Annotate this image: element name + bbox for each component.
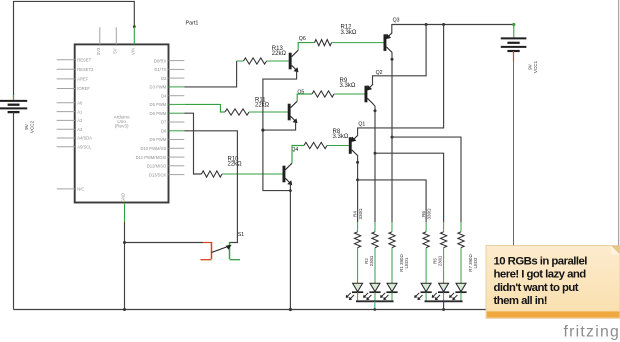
Arduino right pins D0..D13 — [136, 58, 185, 177]
pin 5V — [112, 27, 117, 53]
transistor Q4 — [283, 147, 299, 185]
pin VIN — [130, 27, 135, 55]
LED LED1 channel 2 — [363, 248, 381, 302]
wire D5 to R11 — [184, 104, 225, 112]
svg-text:D0/RX: D0/RX — [154, 58, 167, 63]
node rail joint Q2 feed — [425, 23, 428, 26]
svg-text:D12/MISO: D12/MISO — [147, 164, 167, 169]
svg-text:3.3kΩ: 3.3kΩ — [341, 30, 357, 36]
resistor R13 22k — [244, 46, 287, 64]
svg-text:D6 PWM: D6 PWM — [150, 111, 167, 116]
svg-text:IOREF: IOREF — [77, 86, 90, 91]
wire Q5 emitter join — [263, 121, 296, 130]
wire split to group2 column2 — [375, 153, 444, 232]
wire Q3 column down to resistor — [391, 137, 393, 232]
resistor R2 230ohm — [372, 232, 378, 248]
LED LED2 channel 3 — [449, 248, 467, 302]
svg-text:Q3: Q3 — [393, 17, 400, 23]
wire Q6 collector to R12 — [298, 43, 314, 51]
wire Q2 emitter to +9V — [373, 25, 427, 85]
wire Q1 emitter to +9V — [358, 25, 444, 137]
wire LED2 bus to ground rail — [442, 301, 445, 311]
svg-text:230Ω: 230Ω — [438, 255, 443, 266]
wire LED1 bus to ground rail — [373, 301, 376, 311]
wire Q3 emitter to +9V rail — [391, 24, 393, 33]
svg-text:them all in!: them all in! — [494, 295, 548, 307]
svg-text:A3: A3 — [77, 127, 83, 132]
node Q2 split junction — [374, 152, 377, 155]
svg-text:D5 PWM: D5 PWM — [150, 102, 167, 107]
LED LED1 channel 1 — [346, 248, 364, 302]
svg-text:9V: 9V — [24, 123, 29, 130]
wire split to group2 column3 — [392, 137, 461, 232]
transistor Q1 — [349, 121, 366, 155]
note sticky annotation — [486, 246, 620, 319]
svg-text:330Ω: 330Ω — [427, 208, 432, 220]
wire LED2 cathode bus — [425, 300, 463, 302]
wire battery VCC1 negative down — [513, 62, 515, 310]
svg-text:(Rev3): (Rev3) — [115, 124, 129, 129]
pin 3V3 — [96, 27, 101, 55]
transistor Q6 — [289, 36, 306, 72]
fritzing logo — [564, 324, 620, 341]
wire R11 to Q5 base — [249, 111, 288, 113]
wire Q1 collector down — [356, 155, 359, 180]
wire LED1 cathode bus — [356, 300, 394, 302]
svg-text:5V: 5V — [112, 48, 117, 53]
svg-text:didn't want to put: didn't want to put — [494, 282, 579, 294]
node rail to battery joint — [512, 23, 515, 26]
svg-text:VCC2: VCC2 — [29, 120, 34, 133]
wire GND to S1 — [125, 242, 204, 244]
svg-text:R4: R4 — [352, 211, 357, 217]
svg-text:D1/TX: D1/TX — [154, 67, 166, 72]
svg-text:Q1: Q1 — [358, 121, 365, 127]
svg-text:10 RGBs in parallel: 10 RGBs in parallel — [494, 255, 588, 267]
svg-text:A0: A0 — [77, 101, 83, 106]
wire Q2 column down — [374, 153, 376, 232]
resistor R5 230ohm — [441, 232, 447, 248]
node GND wire junction — [123, 241, 126, 244]
wire +9V top rail — [392, 24, 514, 26]
wire Q3 collector down — [391, 52, 394, 137]
svg-text:22kΩ: 22kΩ — [228, 162, 243, 168]
battery VCC1 9V — [501, 25, 538, 74]
svg-text:A4/SDA: A4/SDA — [77, 136, 92, 141]
svg-text:R6: R6 — [421, 211, 426, 217]
svg-text:RESET: RESET — [77, 57, 91, 62]
wire D3 to R13 — [184, 61, 243, 87]
wire Q6 emitter bus — [263, 71, 297, 310]
resistor R4 330ohm — [355, 232, 361, 248]
label R2 — [364, 255, 374, 266]
wire Q1 column down — [357, 180, 359, 232]
transistor Q5 — [288, 89, 305, 123]
svg-text:9V: 9V — [527, 63, 532, 70]
svg-text:Part1: Part1 — [186, 21, 199, 27]
wire R13 to Q6 base — [267, 60, 289, 62]
wire R10 to Q4 base — [222, 173, 283, 175]
frame right edge line — [618, 0, 620, 246]
resistor R7 390ohm — [458, 232, 464, 248]
node Q3 split junction — [391, 136, 394, 139]
wire Q5 collector to R9 — [297, 94, 312, 101]
wire split to group2 column1 — [358, 180, 427, 232]
resistor R11 22k — [225, 97, 270, 115]
svg-text:D13/SCK: D13/SCK — [149, 172, 167, 177]
LED LED2 channel 2 — [432, 248, 450, 302]
resistor R1 390ohm — [389, 232, 395, 248]
wire R8 to Q1 base — [327, 145, 349, 147]
svg-text:RESET2: RESET2 — [77, 67, 94, 72]
pushbutton S1 — [201, 232, 245, 260]
wire D8 to S1 — [184, 131, 237, 243]
wire D6 to R10 — [184, 113, 201, 174]
wire R12 to Q3 base — [332, 42, 384, 44]
label R7 and LED2 — [468, 254, 478, 272]
node rail joint Q1 feed — [442, 23, 445, 26]
svg-text:330Ω: 330Ω — [358, 208, 363, 220]
svg-text:LED1: LED1 — [404, 257, 409, 269]
node VIN wire junction — [133, 25, 136, 28]
svg-text:N/C: N/C — [77, 187, 84, 192]
svg-text:3V3: 3V3 — [96, 47, 101, 55]
svg-text:A2: A2 — [77, 118, 83, 123]
label R1 and LED1 — [399, 254, 409, 272]
svg-text:D3 PWM: D3 PWM — [150, 85, 167, 90]
svg-text:3.3kΩ: 3.3kΩ — [340, 83, 356, 89]
wire battery VCC2 positive to VIN (top rail) — [14, 1, 135, 101]
battery VCC2 9V — [0, 95, 34, 133]
svg-text:LED2: LED2 — [473, 257, 478, 269]
svg-text:D11 PWM/MOSI: D11 PWM/MOSI — [136, 155, 167, 160]
svg-text:fritzing: fritzing — [564, 324, 620, 341]
wire Q4 collector to R8 — [292, 146, 304, 164]
LED LED1 channel 3 — [380, 248, 398, 302]
label R6 — [421, 208, 432, 220]
resistor R6 330ohm — [423, 232, 429, 248]
svg-text:D10 PWM/SS: D10 PWM/SS — [140, 146, 166, 151]
label R4 — [352, 208, 363, 220]
svg-text:A1: A1 — [77, 109, 83, 114]
resistor R10 22k — [202, 156, 243, 177]
wire Q4 emitter join — [289, 183, 292, 192]
pin GND — [121, 193, 126, 222]
node emitter bus at ground rail — [289, 308, 292, 311]
svg-text:here! I got lazy and: here! I got lazy and — [494, 269, 587, 281]
svg-text:3.3kΩ: 3.3kΩ — [333, 134, 349, 140]
node GND rail Arduino joint — [123, 308, 126, 311]
svg-text:Q6: Q6 — [299, 36, 306, 42]
svg-text:D9 PWM: D9 PWM — [150, 137, 167, 142]
wire R9 to Q2 base — [334, 93, 365, 95]
svg-text:GND: GND — [121, 193, 126, 202]
transistor Q2 — [365, 70, 383, 104]
resistor R12 3.3k — [315, 25, 357, 46]
svg-text:D2: D2 — [161, 76, 167, 81]
resistor R8 3.3k — [304, 129, 349, 149]
svg-text:S1: S1 — [238, 232, 244, 238]
transistor Q3 — [384, 17, 400, 52]
node Q1 split junction — [356, 178, 359, 181]
svg-text:230Ω: 230Ω — [369, 255, 374, 266]
svg-text:VCC1: VCC1 — [533, 60, 538, 73]
Arduino Uno (Rev3) U1 — [75, 44, 169, 202]
label Part1 — [186, 21, 199, 27]
svg-text:D4: D4 — [161, 93, 167, 98]
node emitter bus junction — [261, 129, 264, 132]
wire battery VCC2 negative to ground rail — [13, 112, 15, 309]
svg-text:VIN: VIN — [130, 48, 135, 55]
resistor R9 3.3k — [312, 78, 356, 97]
svg-text:AREF: AREF — [77, 77, 89, 82]
label R5 — [432, 255, 442, 266]
svg-text:D8: D8 — [161, 129, 167, 134]
wire Arduino GND down to ground rail — [124, 222, 126, 310]
wire ground rail — [14, 309, 514, 311]
wire Q2 collector down — [373, 103, 377, 153]
svg-text:22kΩ: 22kΩ — [272, 51, 287, 57]
Arduino left pins RESET..A5,N/C — [57, 57, 94, 191]
LED LED2 channel 1 — [414, 248, 432, 302]
svg-text:D7: D7 — [161, 120, 167, 125]
svg-text:A5/SCL: A5/SCL — [77, 145, 92, 150]
